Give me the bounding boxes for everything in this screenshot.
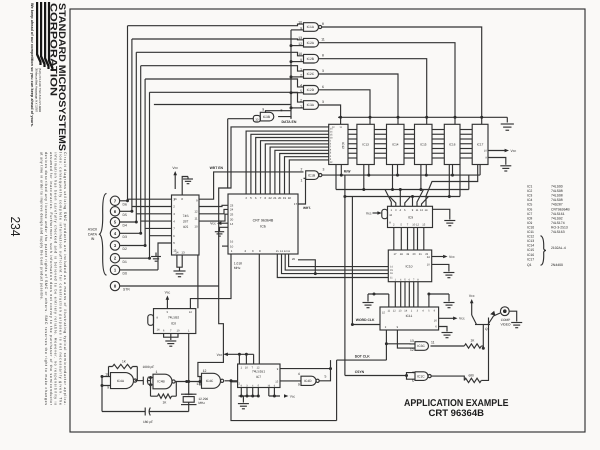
svg-text:16: 16 <box>174 197 178 201</box>
svg-text:20: 20 <box>413 253 416 256</box>
wire IC3B pin 10 lead <box>228 118 254 120</box>
svg-text:14: 14 <box>230 222 234 226</box>
svg-text:1: 1 <box>241 366 243 369</box>
crystal 12.296 MHz <box>181 394 208 411</box>
power Vcc right of IC17 <box>488 149 516 153</box>
wire IC15 R/W pin <box>425 165 427 176</box>
wire IC9 to IC10 <box>413 228 415 251</box>
svg-text:2N4400: 2N4400 <box>551 263 563 267</box>
wire CSYN to IC1C pin4 <box>407 373 416 376</box>
svg-text:IC13: IC13 <box>527 239 534 243</box>
wire IC3B output DATA EN <box>278 117 291 119</box>
svg-text:4: 4 <box>330 155 332 158</box>
svg-text:74LS08: 74LS08 <box>551 198 563 202</box>
svg-text:4: 4 <box>252 384 254 387</box>
svg-text:10: 10 <box>298 21 302 25</box>
svg-text:Q1: Q1 <box>485 327 489 331</box>
svg-text:10: 10 <box>298 52 302 56</box>
wire STR line <box>120 285 219 287</box>
wire IC12 R/W pin <box>340 165 342 176</box>
wire IC9 to IC10 <box>423 228 425 251</box>
mystery vertical near IC5 <box>197 255 199 308</box>
wire IC7 pins16,6 to Vcc <box>269 388 289 398</box>
wire Vcc to IC7 pin1 <box>238 354 240 364</box>
svg-text:COMP: COMP <box>501 318 511 322</box>
chip IC5 74S287 <box>172 195 200 255</box>
wire IC3B pin10 riser + STR staircase <box>198 119 228 377</box>
ground below IC7 <box>238 404 249 409</box>
wire IC10 to IC11 <box>404 282 406 307</box>
svg-text:Vcc: Vcc <box>290 394 296 398</box>
wire IC10 to IC11 <box>413 282 415 307</box>
svg-text:12: 12 <box>330 161 333 164</box>
power Vcc above IC8 <box>165 291 171 309</box>
gate IC3C <box>410 339 435 352</box>
svg-text:DOT CLK: DOT CLK <box>355 354 371 358</box>
node IC4A input ties <box>101 375 111 412</box>
svg-text:6: 6 <box>404 209 406 212</box>
bus between IC15 and IC16 <box>432 130 444 159</box>
ground at IC6 pin14 <box>215 232 224 236</box>
svg-text:12: 12 <box>416 224 419 227</box>
wire DATA EN bus to IC2C lower input <box>291 76 304 78</box>
svg-text:9: 9 <box>107 386 109 390</box>
power Vcc at IC11 pin16 <box>439 317 465 321</box>
wire funnel to IC9 pin1 <box>385 190 391 207</box>
bus memory data level A <box>336 165 469 192</box>
svg-text:WRT.: WRT. <box>303 206 311 210</box>
svg-text:IC2C: IC2C <box>307 72 315 76</box>
svg-text:5: 5 <box>412 379 414 383</box>
label ASCII DATA IN <box>88 228 98 242</box>
svg-text:180 pF: 180 pF <box>143 420 153 424</box>
svg-text:Vcc: Vcc <box>511 149 517 153</box>
power Vcc above IC5 <box>172 166 178 189</box>
svg-text:8: 8 <box>259 249 261 253</box>
svg-text:1: 1 <box>231 249 233 253</box>
wire CSYN <box>345 374 408 377</box>
svg-text:3: 3 <box>323 168 325 172</box>
node IC6 pin26 junction <box>314 272 317 275</box>
svg-text:7: 7 <box>114 198 117 203</box>
svg-text:WORD CLK: WORD CLK <box>356 318 375 322</box>
wire IC8 pins 6,7,10 down <box>164 334 178 338</box>
svg-text:19: 19 <box>406 253 409 256</box>
wire IC13 R/W pin <box>368 165 370 176</box>
svg-text:14: 14 <box>157 328 160 331</box>
svg-text:11: 11 <box>416 209 419 212</box>
svg-text:RO-3-2513: RO-3-2513 <box>551 225 568 229</box>
wire IC10 to IC11 <box>408 282 410 307</box>
wire IC5 pin8 to ground <box>182 177 188 196</box>
svg-text:287: 287 <box>183 220 189 224</box>
svg-text:at any time in order to improv: at any time in order to improve design a… <box>39 152 43 300</box>
svg-text:Vcc: Vcc <box>172 166 178 170</box>
ground right of IC5 Vcc <box>183 177 193 184</box>
svg-text:CORPORATION: CORPORATION <box>48 3 59 96</box>
gate IC3B input tab pin 10 <box>253 115 260 122</box>
svg-text:21: 21 <box>273 196 277 200</box>
node DATA EN bus vertical <box>290 30 293 119</box>
svg-text:8: 8 <box>281 109 283 113</box>
svg-text:14: 14 <box>404 310 407 313</box>
svg-text:Q1: Q1 <box>527 263 532 267</box>
svg-text:11: 11 <box>387 310 390 313</box>
resistor 1K (IC4A feedback) <box>109 359 138 380</box>
wire data bit D1 vertical/junction <box>148 92 172 259</box>
svg-text:information has been carefully: information has been carefully checked a… <box>54 152 58 405</box>
svg-text:We keep ahead of our competiti: We keep ahead of our competition so you … <box>30 3 34 127</box>
chip IC8 74LS92 <box>148 309 196 334</box>
gate IC2C <box>300 68 324 79</box>
gate IC1A <box>298 21 324 32</box>
svg-text:6: 6 <box>274 384 276 387</box>
svg-text:9: 9 <box>485 157 487 160</box>
wire IC16 R/W pin <box>452 165 454 176</box>
svg-text:4: 4 <box>298 372 300 376</box>
ground right above IC11 <box>444 303 455 308</box>
wire DATA EN bus to IC1A lower input <box>291 29 304 31</box>
wire IC17 R/W pin <box>479 165 481 176</box>
wire IC1C out to 680 <box>431 376 464 380</box>
svg-text:12: 12 <box>203 369 207 373</box>
svg-text:5: 5 <box>300 89 302 93</box>
wire IC9 to IC10 <box>400 228 402 251</box>
svg-text:IC8: IC8 <box>527 216 532 220</box>
svg-text:18: 18 <box>400 253 403 256</box>
svg-text:MHz: MHz <box>198 401 205 405</box>
svg-text:3: 3 <box>417 310 419 313</box>
svg-text:IC3C: IC3C <box>417 344 425 348</box>
wire IC6 pin15 to IC10 pin11 <box>277 254 388 278</box>
wire IC4D out up <box>319 360 330 381</box>
svg-text:74LS08: 74LS08 <box>551 189 563 193</box>
svg-text:IC1B: IC1B <box>308 173 316 177</box>
svg-text:12: 12 <box>410 348 414 352</box>
svg-text:5: 5 <box>428 310 430 313</box>
svg-text:12: 12 <box>393 310 396 313</box>
wire IC7 pin12 riser to IC6 pin8 <box>258 254 260 364</box>
svg-text:9: 9 <box>277 368 279 371</box>
wire IC3A output to memory column <box>319 105 341 124</box>
wire IC7 pin15 to IC4D <box>280 380 301 382</box>
wire IC12 pin to IC6 top pin 6 <box>256 138 329 195</box>
svg-text:8: 8 <box>181 197 183 201</box>
wire IC2C output to memory column <box>319 74 399 124</box>
wire data loop to IC3B pin 9 <box>154 104 291 106</box>
svg-text:D6: D6 <box>123 202 127 206</box>
svg-text:15: 15 <box>276 250 279 253</box>
svg-text:13: 13 <box>399 310 402 313</box>
wire IC3B pin 9 input <box>266 111 292 113</box>
power Vcc right of IC7 <box>284 394 296 398</box>
svg-text:IC11: IC11 <box>527 230 534 234</box>
svg-text:12: 12 <box>194 209 198 213</box>
wire memory chip-enable top bus <box>338 116 507 123</box>
svg-text:22: 22 <box>268 196 272 200</box>
wire IC6 pin14 to ground <box>220 227 229 231</box>
svg-text:5: 5 <box>173 241 175 245</box>
wire IC12 pin to IC6 top pin 4 <box>246 131 329 194</box>
svg-text:1000 pF: 1000 pF <box>143 365 155 369</box>
svg-text:1K: 1K <box>163 400 168 404</box>
wire IC2B output to memory column <box>319 59 427 125</box>
wire IC10 pin10 to ground <box>432 264 449 271</box>
ground right of IC10 <box>443 273 454 278</box>
svg-text:R/W: R/W <box>344 169 351 173</box>
svg-text:10: 10 <box>245 366 248 369</box>
wire IC12 pin to IC6 top pin 21 <box>275 150 329 194</box>
svg-text:6: 6 <box>330 149 332 152</box>
svg-text:3: 3 <box>173 212 175 216</box>
wire data bit D4 vertical/junction <box>135 52 172 223</box>
svg-text:2: 2 <box>114 256 117 261</box>
wire IC6 pin11 to IC10 pin14 <box>289 254 389 267</box>
svg-text:13: 13 <box>420 209 423 212</box>
wire IC6 pin10 stub <box>222 245 228 247</box>
svg-text:74S287: 74S287 <box>551 203 563 207</box>
svg-text:Vcc: Vcc <box>217 353 223 357</box>
wire IC12 top-left pin west <box>228 127 329 188</box>
svg-text:8: 8 <box>322 54 324 58</box>
svg-text:1.018: 1.018 <box>234 261 242 265</box>
wire IC17 data to IC9 pin14 <box>426 165 478 207</box>
svg-text:7: 7 <box>407 224 409 227</box>
wire data bit D2 vertical/junction <box>144 79 172 247</box>
svg-text:13: 13 <box>410 339 414 343</box>
connector pin 2 (D1) <box>110 254 149 264</box>
chip IC13 2102AL-4 <box>357 124 374 164</box>
svg-text:11: 11 <box>390 276 393 279</box>
bus between IC16 and IC17 <box>460 130 472 159</box>
svg-text:1: 1 <box>395 278 397 281</box>
chip IC10 RO-3-2513 <box>388 250 431 282</box>
svg-text:5: 5 <box>114 220 117 225</box>
svg-text:Vcc: Vcc <box>165 291 171 295</box>
wire Vcc to IC7 pin10 <box>245 354 247 364</box>
svg-text:3: 3 <box>322 100 324 104</box>
wire IC9 pin14 area to ground <box>433 209 450 219</box>
wire IC6 pin26 <box>298 260 315 274</box>
capacitor 1000 pF <box>135 365 154 385</box>
svg-text:1: 1 <box>114 267 117 272</box>
wire IC5 pin10 to IC6 pin25 <box>199 214 228 221</box>
connector pin 3 (D2) <box>110 241 145 251</box>
svg-text:9: 9 <box>412 209 414 212</box>
svg-text:IC5: IC5 <box>183 225 188 229</box>
svg-text:17: 17 <box>294 202 298 206</box>
wire data bit D0 jog <box>158 243 172 270</box>
chip IC17 2102AL-4 <box>472 124 488 164</box>
svg-text:18: 18 <box>288 196 292 200</box>
svg-text:8: 8 <box>157 316 159 319</box>
svg-text:IC3A: IC3A <box>307 103 315 107</box>
gate IC3B <box>260 108 282 121</box>
svg-text:3: 3 <box>330 158 332 161</box>
transistor Q1 <box>472 311 501 348</box>
svg-text:2102AL-4: 2102AL-4 <box>551 246 566 250</box>
ground below IC5 <box>173 267 185 277</box>
svg-text:10: 10 <box>330 136 333 139</box>
svg-text:IC4D: IC4D <box>304 379 312 383</box>
svg-text:IC8: IC8 <box>171 321 176 325</box>
wire IC12 pin to IC6 top pin 22 <box>270 147 329 194</box>
svg-text:17: 17 <box>394 253 397 256</box>
wire IC11 pin11 col <box>388 294 390 307</box>
resistor 1K (video) <box>464 339 481 349</box>
svg-text:D4: D4 <box>123 224 127 228</box>
gate IC1B <box>301 167 325 182</box>
svg-text:5: 5 <box>258 384 260 387</box>
chip IC11 74LS163 <box>380 307 439 330</box>
svg-text:(516) 273-3100 TWX-510-227-8: (516) 273-3100 TWX-510-227-8898 <box>38 68 42 112</box>
svg-text:14: 14 <box>425 209 428 212</box>
svg-text:D3: D3 <box>123 235 127 239</box>
connector pin 6 (D5) <box>110 207 132 217</box>
svg-text:11: 11 <box>431 341 435 345</box>
svg-text:7: 7 <box>260 196 262 200</box>
svg-text:2: 2 <box>301 167 303 171</box>
svg-text:12.296: 12.296 <box>198 397 208 401</box>
svg-text:IC2D: IC2D <box>307 88 315 92</box>
svg-text:DATA EN: DATA EN <box>282 120 297 124</box>
svg-text:assumed for inaccuracies. Furt: assumed for inaccuracies. Furthermore, s… <box>49 152 53 406</box>
SMC address line (rotated) <box>35 68 43 112</box>
wire IC5 pin11 to IC6 pin24 <box>199 209 228 213</box>
wire data loop to IC2A input <box>132 38 304 41</box>
svg-text:12: 12 <box>332 126 335 129</box>
svg-text:tions; consequently complete i: tions; consequently complete information… <box>58 152 62 405</box>
svg-text:IC10: IC10 <box>406 264 413 268</box>
svg-text:15: 15 <box>382 312 385 315</box>
node IC11 top-left ground junction <box>368 293 389 302</box>
svg-text:234: 234 <box>8 217 23 237</box>
svg-text:IC15: IC15 <box>420 143 427 147</box>
svg-text:24: 24 <box>230 208 234 212</box>
chip IC16 2102AL-4 <box>444 124 460 164</box>
svg-text:2: 2 <box>330 143 332 146</box>
svg-text:IC16: IC16 <box>527 253 534 257</box>
svg-text:11: 11 <box>287 250 290 253</box>
node Q1 base junction <box>481 346 485 350</box>
svg-text:IC12: IC12 <box>527 235 534 239</box>
svg-text:CRT96364B: CRT96364B <box>551 207 570 211</box>
svg-text:IC4A: IC4A <box>117 379 125 383</box>
power Vcc bus above IC7 <box>217 353 254 358</box>
svg-text:IC17: IC17 <box>477 143 484 147</box>
gate IC4D <box>298 372 327 386</box>
svg-text:1: 1 <box>301 179 303 183</box>
connector pin 4 (D3) <box>110 229 140 239</box>
svg-text:12: 12 <box>189 311 192 314</box>
wire video jack to ground <box>509 311 517 321</box>
svg-text:16: 16 <box>230 240 234 244</box>
svg-text:IC1: IC1 <box>527 185 532 189</box>
wire data loop to IC2C input <box>141 66 304 71</box>
svg-text:IC13: IC13 <box>362 143 369 147</box>
svg-text:5: 5 <box>325 374 327 378</box>
svg-text:STR: STR <box>123 288 130 292</box>
svg-text:Vcc: Vcc <box>366 211 372 215</box>
wire funnel to IC9 pin6 <box>405 197 411 207</box>
svg-text:IN: IN <box>91 237 95 241</box>
svg-text:4: 4 <box>114 231 117 236</box>
wire DATA EN bus to IC2A lower input <box>291 45 304 47</box>
wire IC5 pins14/13 down <box>177 255 182 267</box>
svg-text:74LS00: 74LS00 <box>551 185 563 189</box>
ground left above IC11 <box>363 303 374 308</box>
svg-text:4: 4 <box>412 371 414 375</box>
svg-text:7: 7 <box>170 330 172 333</box>
svg-text:1K: 1K <box>471 339 476 343</box>
svg-text:IC2A: IC2A <box>307 41 315 45</box>
svg-text:1: 1 <box>156 370 158 374</box>
table parts list <box>527 185 570 268</box>
svg-text:CSYN: CSYN <box>355 370 365 374</box>
svg-text:5: 5 <box>250 196 252 200</box>
wire DOT CLK <box>337 330 388 421</box>
svg-text:3: 3 <box>114 243 117 248</box>
svg-text:IC2: IC2 <box>527 189 532 193</box>
svg-text:74LS92: 74LS92 <box>551 216 563 220</box>
svg-text:Vcc: Vcc <box>469 294 475 298</box>
svg-text:16: 16 <box>267 384 270 387</box>
svg-text:D5: D5 <box>123 213 127 217</box>
chip IC14 2102AL-4 <box>387 124 405 164</box>
wire IC8 pin7 gnd stem <box>170 334 172 341</box>
wire CSYN to IC1C pin5 <box>407 376 416 380</box>
wire IC2D output to memory column <box>319 90 371 125</box>
ground near IC5 D0 line <box>151 253 161 262</box>
brace ASCII DATA IN <box>100 193 107 275</box>
svg-text:IC2B: IC2B <box>307 57 315 61</box>
svg-text:Vcc: Vcc <box>449 255 455 259</box>
svg-text:4: 4 <box>400 209 402 212</box>
svg-text:D2: D2 <box>123 247 127 251</box>
gate IC2D <box>300 83 324 94</box>
wire IC14 R/W pin <box>397 165 399 176</box>
wire IC4B out node <box>176 380 202 383</box>
wire funnel to IC9 pin3 <box>390 197 396 207</box>
svg-text:11: 11 <box>321 38 325 42</box>
svg-text:4: 4 <box>300 83 302 87</box>
gate IC2A <box>298 36 325 47</box>
wire funnel to IC9 pin4 <box>399 188 402 206</box>
wire IC4C out to IC7 pin2 <box>225 379 238 382</box>
wire IC9 to IC10 <box>417 228 419 251</box>
gate IC4C <box>196 369 223 389</box>
wire data loop to IC1A input <box>128 24 304 26</box>
wire IC7 reset pins to ground <box>239 388 260 398</box>
connector pin 5 (D4) <box>110 217 136 227</box>
wire R/W bus <box>322 174 480 177</box>
SMC logo stripes <box>36 2 54 71</box>
chip IC12 2102AL-4 <box>329 124 348 164</box>
wire IC11 pin9 to IC3C pin12 <box>397 330 415 348</box>
svg-text:2: 2 <box>385 326 387 329</box>
svg-text:IC7: IC7 <box>527 212 532 216</box>
chip IC6 CRT 96364B <box>228 194 298 261</box>
svg-text:1: 1 <box>391 209 393 212</box>
svg-text:12: 12 <box>298 42 302 46</box>
wire Vcc to IC7 pin7 <box>253 354 255 364</box>
wire IC11 pins to top mids <box>428 294 430 307</box>
connector pin 8 (STR) <box>110 281 130 291</box>
gate IC2B <box>298 52 324 63</box>
svg-text:IC1C: IC1C <box>417 374 425 378</box>
svg-text:5: 5 <box>167 311 169 314</box>
svg-text:8: 8 <box>114 284 117 289</box>
